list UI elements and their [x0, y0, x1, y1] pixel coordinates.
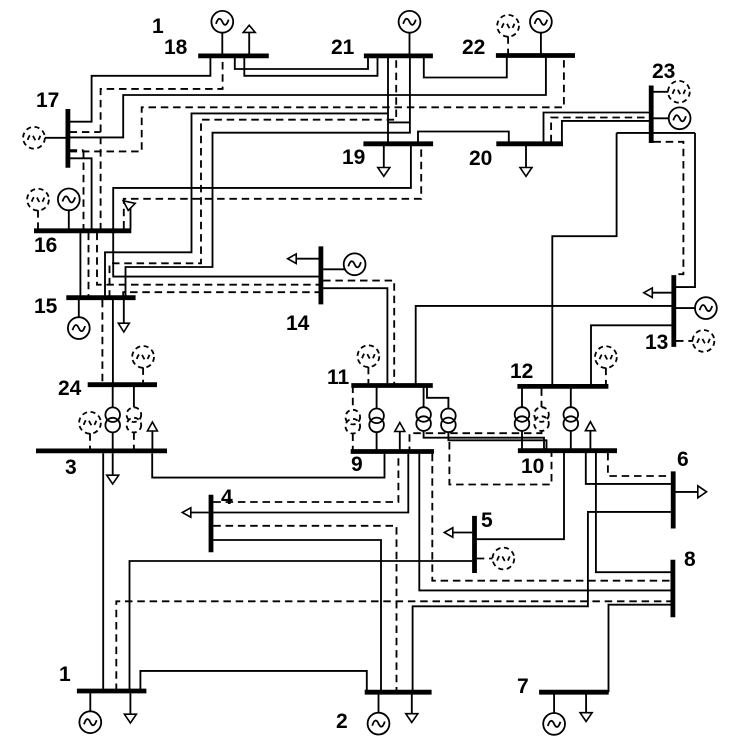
wire load 18 stem	[248, 33, 250, 55]
bus 6 bar	[671, 471, 676, 528]
bus 23 bar	[649, 86, 654, 144]
generator G21	[399, 11, 421, 33]
svg-text:10: 10	[521, 455, 544, 478]
svg-text:24: 24	[58, 377, 82, 400]
load arrowhead load 4	[182, 508, 191, 518]
wire G2 stem	[378, 695, 380, 714]
bus 22 bar	[496, 53, 575, 58]
wire line 4-9 candidate	[213, 454, 398, 502]
wire line 12-13	[591, 325, 672, 384]
transformer T 9-11	[369, 409, 384, 433]
generator G22b	[530, 11, 552, 33]
wire G12 stem	[605, 368, 607, 385]
bus 14 bar	[318, 246, 323, 304]
bus 15 bar	[66, 295, 135, 300]
transformer T 10-11 b	[441, 409, 456, 433]
transformer T 10-12 a	[515, 407, 530, 431]
wire load 5 stem	[453, 532, 472, 534]
wire line 16-19 candidate	[124, 146, 421, 229]
wire load 19 stem	[383, 146, 385, 167]
svg-text:18: 18	[164, 36, 188, 59]
svg-text:21: 21	[331, 36, 355, 59]
wire line 18-21 no2	[244, 58, 377, 76]
wire line 8-9	[419, 454, 670, 591]
wire G23b stem	[653, 117, 669, 119]
wire line 15-21 candidate	[110, 58, 397, 298]
wire line 5-10	[477, 453, 564, 539]
wire load 13 stem	[652, 292, 671, 294]
wire G7 stem	[553, 695, 555, 714]
load arrowhead 16	[123, 201, 135, 211]
bus 9 bar	[351, 449, 434, 454]
wire G5 stem	[477, 558, 493, 560]
bus 2 bar	[365, 690, 432, 695]
load arrowhead load 6	[698, 486, 707, 498]
wire T 3-24 stem up	[112, 385, 114, 408]
wire line 21-22	[424, 58, 507, 78]
generator G22a (candidate)	[497, 15, 519, 37]
wire 17-18 candidate riser	[101, 58, 223, 231]
wire load 3 stem	[151, 431, 153, 449]
wire G13a stem	[676, 307, 695, 309]
bus 17 bar	[66, 109, 71, 168]
generator G15	[68, 317, 90, 339]
bus 12 bar	[517, 384, 608, 389]
bus 19 bar	[363, 141, 433, 146]
wire T 10-12a stem down	[521, 431, 523, 451]
load arrowhead load 9	[395, 423, 405, 432]
wire G15 stem	[78, 300, 80, 318]
wire line 1-5	[130, 561, 473, 691]
bus 10 bar	[518, 448, 617, 453]
svg-text:20: 20	[469, 147, 492, 170]
wire line 17-18 candidate	[70, 131, 101, 133]
wire T 9-11c stem down	[352, 434, 354, 452]
svg-text:12: 12	[510, 360, 533, 383]
wire G14 stem	[323, 268, 345, 270]
bus 21 bar	[364, 54, 433, 59]
wire line 14-16	[113, 233, 319, 277]
wire load 10 stem	[589, 431, 591, 449]
load arrowhead load 19	[378, 168, 390, 177]
wire G22b stem	[540, 33, 542, 54]
svg-text:17: 17	[36, 89, 59, 112]
wire line 6-10 candidate	[608, 453, 671, 476]
wire T 9-12c stem down	[410, 431, 542, 452]
wire line 15-24 candidate	[101, 300, 103, 385]
svg-text:3: 3	[65, 456, 77, 479]
transformer T 10-12 b	[564, 407, 579, 431]
wire line 2-6	[413, 512, 671, 692]
bus 11 bar	[351, 383, 433, 388]
svg-text:4: 4	[221, 486, 233, 509]
wire line 14-15 candidate	[123, 292, 319, 298]
load arrowhead load 7	[580, 713, 592, 722]
generator G23a (candidate)	[668, 81, 690, 103]
wire G21 stem	[409, 33, 411, 54]
wire T 10-11a stem down	[424, 431, 544, 451]
wire line 16-17 candidate stub	[70, 149, 84, 151]
wire T 10-12b stem down	[570, 431, 572, 451]
wire line 9-10 candidate	[449, 442, 551, 485]
generator G17 (candidate)	[23, 127, 45, 149]
wire line 4-9	[213, 454, 408, 513]
svg-text:5: 5	[481, 509, 493, 532]
generator G16a (candidate)	[27, 189, 49, 211]
generator G23b	[669, 107, 691, 129]
bus 24 bar	[88, 382, 157, 387]
load arrowhead load 5	[444, 528, 453, 538]
svg-text:19: 19	[342, 146, 365, 169]
load arrowhead load 10	[585, 422, 595, 431]
wire G1 stem	[89, 693, 91, 711]
transformer T 9-11 candidate	[346, 410, 361, 434]
wire G13b stem	[676, 340, 693, 342]
wire line 13-23 drop	[676, 133, 695, 287]
wire line 18-21 no1	[235, 58, 368, 69]
svg-text:9: 9	[351, 453, 363, 476]
wire load 1 stem	[129, 693, 131, 714]
load arrowhead load 3	[147, 422, 157, 431]
wire load 16 stem	[130, 205, 132, 229]
generator G1	[79, 711, 101, 733]
wire 21-19 vertical	[387, 58, 389, 143]
wire G16b stem	[68, 210, 70, 229]
wire line 6-10	[586, 453, 671, 484]
svg-text:22: 22	[462, 36, 485, 59]
generator G7	[543, 713, 565, 735]
wire line 20-23 no1	[544, 113, 650, 143]
svg-text:1: 1	[152, 15, 164, 38]
wire G3 stem	[89, 433, 91, 448]
wire load 15 stem	[123, 300, 125, 323]
wire T 9-11 stem up	[376, 386, 378, 409]
bus 16 bar	[34, 228, 131, 233]
transformer T 9-12 candidate	[534, 407, 549, 431]
svg-text:16: 16	[34, 234, 57, 257]
svg-text:11: 11	[327, 366, 350, 389]
generator G5 (candidate)	[493, 548, 515, 570]
wire G23a stem	[653, 91, 668, 93]
generator G2	[368, 713, 390, 735]
svg-text:8: 8	[684, 548, 696, 571]
load arrowhead load 3dn	[107, 475, 119, 484]
wire T 10-11a stem up	[423, 386, 425, 408]
wire T 10-11b stem down	[448, 432, 546, 451]
load arrowhead load 18	[243, 25, 255, 32]
transformer T 3-24 candidate	[127, 407, 142, 432]
wire T 3-24c stem down	[133, 432, 135, 451]
load arrowhead load 14	[288, 254, 297, 264]
wire load 20 stem	[525, 146, 527, 167]
svg-text:2: 2	[336, 710, 348, 733]
generator G11 (candidate)	[358, 345, 380, 367]
transformer T 3-24	[105, 407, 120, 432]
generator G13b (candidate)	[693, 330, 715, 352]
load arrowhead load 15	[118, 323, 129, 332]
bus 20 bar	[496, 141, 563, 146]
generator G18	[211, 11, 233, 33]
wire load 6 stem	[676, 491, 699, 493]
bus 3 bar	[36, 448, 167, 453]
wire 16-17 candidate drop	[83, 150, 85, 230]
wire line 20-23 candidate	[551, 118, 649, 143]
svg-text:23: 23	[652, 60, 675, 83]
load arrowhead load 20	[520, 168, 532, 177]
wire line 8-9 candidate	[432, 454, 670, 581]
wire line 17-18	[70, 58, 211, 122]
wire G16a stem	[37, 210, 39, 228]
load arrowhead load 13	[644, 288, 653, 298]
wire line 1-2	[140, 671, 366, 692]
wire T 9-12c stem up	[541, 388, 543, 407]
wire line 17-22 candidate	[70, 56, 564, 152]
bus 5 bar	[472, 516, 477, 573]
wire line 12-23 run	[552, 133, 616, 385]
bus 7 bar	[539, 690, 609, 695]
svg-text:7: 7	[517, 675, 529, 698]
wire T 10-12a stem up	[521, 388, 523, 407]
wire load 14 stem	[296, 258, 318, 260]
svg-text:15: 15	[34, 295, 58, 318]
wire load 4 stem	[191, 512, 209, 514]
wire line 15-21 no1	[105, 113, 388, 297]
wire line 2-4	[213, 540, 381, 692]
svg-text:13: 13	[645, 331, 668, 354]
wire G22a stem	[507, 36, 509, 53]
transformer T 10-11 a	[416, 407, 431, 431]
wire line 15-16 candidate	[88, 233, 90, 296]
wire T 10-12b stem up	[570, 388, 572, 407]
wire T 3-24c stem up	[133, 385, 135, 408]
generator G14	[344, 253, 366, 275]
wire line 12-23 and 13-23 crossing bar	[617, 132, 695, 134]
wire line 8-10	[596, 453, 671, 572]
generator G16b	[58, 189, 80, 211]
wire line 14-16 candidate	[97, 233, 319, 285]
wire line 1-3	[102, 453, 104, 691]
wire line 2-4 candidate	[213, 526, 396, 692]
wire line 11-13	[416, 306, 672, 386]
wire line 3-9	[152, 453, 384, 477]
svg-text:1: 1	[59, 663, 71, 686]
wire line 17-22	[70, 56, 546, 138]
wire load 2 stem	[411, 695, 413, 714]
bus 18 bar	[198, 54, 269, 59]
wire T 10-11b stem up	[427, 386, 448, 409]
bus 4 bar	[209, 495, 214, 553]
generator G3 (candidate)	[79, 412, 101, 434]
wire line 20-23 no2	[562, 121, 649, 142]
generator G12 (candidate)	[595, 346, 617, 368]
wire line 16-19	[113, 146, 411, 231]
wire G11 stem	[367, 367, 369, 384]
load arrowhead load 1	[124, 714, 136, 723]
wire line 15-16	[79, 233, 81, 296]
generator G13a	[695, 297, 717, 319]
wire line 1-8 candidate	[116, 601, 670, 691]
wire T 9-11 stem down	[376, 432, 378, 451]
bus 13 bar	[671, 275, 676, 347]
wire G18 stem	[221, 33, 223, 54]
wire G24 stem	[142, 367, 144, 382]
bus 1 bar	[77, 689, 146, 694]
wire line 19-20	[418, 132, 509, 144]
svg-text:6: 6	[677, 448, 689, 471]
wire line 16-17	[70, 158, 92, 230]
wire T 9-11c stem up	[352, 386, 354, 410]
wire line 15-21 no2	[126, 58, 410, 298]
bus 8 bar	[671, 560, 676, 617]
wire line 11-14 candidate	[323, 281, 394, 386]
wire line 7-8	[609, 605, 671, 693]
wire load 9 stem	[399, 432, 401, 450]
wire line 11-14	[323, 288, 387, 385]
wire T 3-24 stem down	[112, 432, 114, 451]
svg-text:14: 14	[286, 312, 310, 335]
wire load 3dn stem	[112, 453, 114, 475]
wire G17 stem	[45, 137, 66, 139]
load arrowhead load 2	[406, 714, 418, 723]
wire line 15-24	[112, 300, 114, 385]
generator G24 (candidate)	[132, 346, 154, 368]
wire line 13-23 candidate	[653, 142, 683, 274]
wire load 7 stem	[585, 695, 587, 713]
wire 15-21 no2 bridge	[388, 121, 410, 123]
